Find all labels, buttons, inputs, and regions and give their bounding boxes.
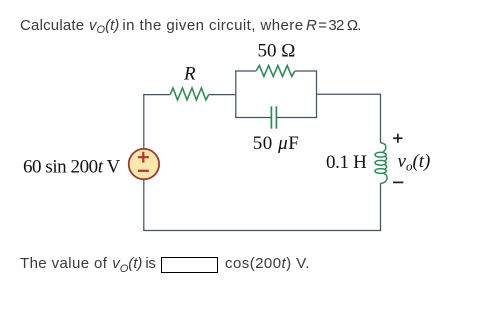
wire bottom [144, 230, 381, 232]
resistor 50 ohm [256, 66, 295, 77]
svg-text:0.1 H: 0.1 H [326, 152, 367, 173]
svg-text:60 sin 200t V: 60 sin 200t V [23, 157, 120, 178]
svg-text:R: R [183, 64, 196, 85]
wire left vertical lower [143, 179, 145, 231]
label - inside source [138, 170, 149, 172]
resistor R [170, 88, 209, 100]
svg-text:50 Ω: 50 Ω [258, 40, 296, 61]
capacitor C 50uF plate left [270, 106, 272, 128]
title math R = 32 ohm [306, 18, 361, 33]
wire box bottom edge left [235, 117, 271, 119]
bottom answer text is [145, 256, 155, 271]
title math vO(t) [89, 18, 119, 35]
label + polarity of vo [393, 134, 402, 143]
wire box to top-right corner [317, 93, 381, 95]
capacitor C 50uF plate right [275, 106, 277, 128]
label - polarity of vo [393, 181, 403, 183]
wire parallel box right edge [316, 71, 318, 118]
wire parallel box left edge [235, 71, 237, 118]
bottom answer text part 2 [225, 256, 310, 271]
wire box bottom edge right [276, 117, 317, 119]
wire left vertical upper [143, 94, 145, 149]
svg-text:vo(t): vo(t) [398, 151, 431, 174]
input box [161, 257, 219, 274]
wire box top edge left [235, 70, 256, 72]
voltage source VS 60sin200t [129, 149, 159, 179]
wire box top edge right [295, 70, 317, 72]
label + inside source [138, 152, 149, 163]
title text part 1 [20, 18, 84, 33]
wire right vertical upper [380, 94, 382, 143]
inductor L 0.1H coil [375, 143, 387, 184]
bottom answer text part 1 [20, 256, 107, 271]
wire resistor to box [209, 94, 236, 96]
wire top-left horizontal [144, 94, 170, 96]
svg-text:50 μF: 50 μF [253, 133, 300, 154]
wire right vertical lower [380, 183, 382, 231]
title text part 2 [122, 18, 303, 33]
bottom math vO(t) [112, 256, 142, 273]
